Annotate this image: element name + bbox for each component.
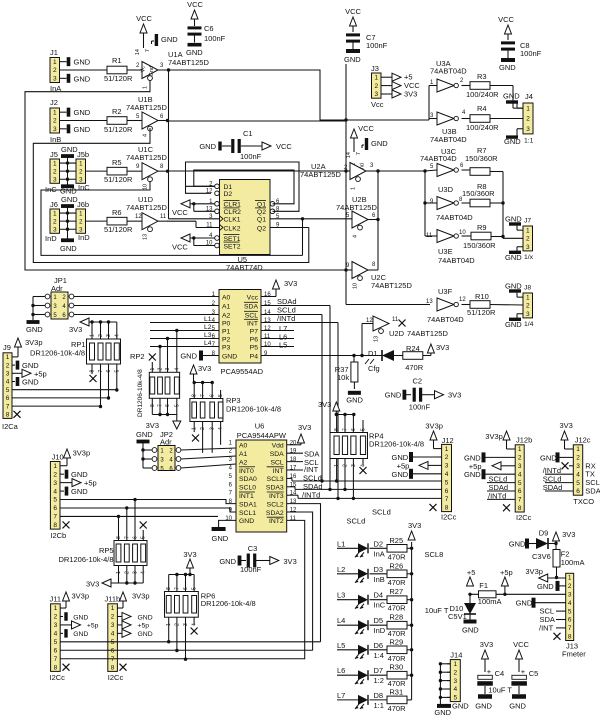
svg-text:6: 6 bbox=[6, 395, 10, 402]
svg-text:7: 7 bbox=[145, 49, 151, 52]
svg-text:3V3: 3V3 bbox=[146, 421, 159, 430]
svg-text:12: 12 bbox=[459, 297, 466, 303]
svg-text:VCC: VCC bbox=[172, 208, 188, 217]
svg-text:11: 11 bbox=[392, 317, 399, 323]
svg-text:3: 3 bbox=[568, 592, 572, 599]
svg-text:7: 7 bbox=[518, 497, 522, 504]
svg-text:13: 13 bbox=[264, 318, 271, 324]
svg-text:3: 3 bbox=[576, 463, 580, 470]
svg-text:J1: J1 bbox=[50, 48, 58, 57]
svg-text:1: 1 bbox=[53, 210, 57, 217]
svg-text:RP2: RP2 bbox=[130, 352, 145, 361]
svg-text:10uF T: 10uF T bbox=[425, 606, 449, 615]
svg-text:D8: D8 bbox=[374, 691, 384, 700]
svg-text:5: 5 bbox=[53, 497, 57, 504]
svg-text:3V3: 3V3 bbox=[198, 364, 211, 373]
svg-text:3: 3 bbox=[53, 176, 57, 183]
svg-text:7: 7 bbox=[111, 656, 115, 663]
svg-text:InA: InA bbox=[374, 549, 385, 558]
svg-text:13: 13 bbox=[374, 336, 380, 342]
svg-text:INT3: INT3 bbox=[269, 493, 284, 500]
svg-text:INT: INT bbox=[273, 468, 284, 475]
svg-text:4: 4 bbox=[6, 379, 10, 386]
svg-text:5: 5 bbox=[54, 639, 58, 646]
svg-text:3V3: 3V3 bbox=[404, 90, 417, 99]
svg-text:D7: D7 bbox=[374, 666, 384, 675]
svg-text:PCA9544APW: PCA9544APW bbox=[237, 431, 287, 440]
svg-text:6: 6 bbox=[568, 617, 572, 624]
svg-text:470R: 470R bbox=[388, 604, 407, 613]
svg-text:CLK2: CLK2 bbox=[224, 225, 241, 232]
svg-text:C6: C6 bbox=[204, 24, 214, 33]
svg-text:SCL2: SCL2 bbox=[267, 501, 284, 508]
svg-text:J14: J14 bbox=[450, 651, 462, 660]
svg-text:GND: GND bbox=[239, 518, 254, 525]
svg-text:3: 3 bbox=[526, 126, 530, 133]
svg-text:A0: A0 bbox=[222, 294, 231, 301]
svg-text:7: 7 bbox=[200, 394, 206, 397]
svg-text:D2: D2 bbox=[224, 191, 233, 198]
svg-text:1: 1 bbox=[53, 109, 57, 116]
svg-text:Vc: Vc bbox=[141, 66, 147, 73]
svg-text:D5: D5 bbox=[374, 616, 384, 625]
svg-text:J9: J9 bbox=[3, 343, 11, 352]
svg-text:2: 2 bbox=[98, 334, 104, 337]
svg-text:100nF: 100nF bbox=[204, 34, 226, 43]
svg-text:GND: GND bbox=[73, 631, 88, 638]
svg-text:SCL: SCL bbox=[270, 459, 283, 466]
svg-text:2: 2 bbox=[576, 455, 580, 462]
svg-text:3: 3 bbox=[53, 126, 57, 133]
svg-text:3V3: 3V3 bbox=[448, 391, 461, 400]
svg-text:SDA: SDA bbox=[270, 451, 284, 458]
svg-text:7: 7 bbox=[54, 656, 58, 663]
svg-text:1: 1 bbox=[53, 160, 57, 167]
svg-text:11: 11 bbox=[290, 516, 297, 522]
svg-text:D1: D1 bbox=[224, 184, 233, 191]
svg-text:InB: InB bbox=[374, 575, 385, 584]
svg-text:GND: GND bbox=[74, 58, 91, 67]
svg-text:P5: P5 bbox=[250, 344, 259, 351]
svg-text:/INT: /INT bbox=[304, 465, 319, 474]
svg-text:1: 1 bbox=[54, 605, 58, 612]
svg-text:Q2: Q2 bbox=[257, 209, 266, 216]
svg-text:4: 4 bbox=[453, 686, 457, 693]
svg-text:1: 1 bbox=[526, 227, 530, 234]
svg-text:8: 8 bbox=[568, 634, 572, 641]
svg-text:C3V6: C3V6 bbox=[532, 552, 551, 561]
svg-text:8: 8 bbox=[6, 412, 10, 419]
svg-text:INT: INT bbox=[247, 320, 258, 327]
svg-text:PCA9554AD: PCA9554AD bbox=[221, 367, 264, 376]
svg-text:VCC: VCC bbox=[187, 0, 203, 9]
svg-text:D3: D3 bbox=[374, 565, 384, 574]
svg-text:SDA: SDA bbox=[244, 303, 258, 310]
svg-text:D9: D9 bbox=[539, 529, 549, 538]
svg-text:DR1206-10k-4/8: DR1206-10k-4/8 bbox=[369, 440, 424, 449]
svg-text:2: 2 bbox=[53, 118, 57, 125]
svg-text:GND: GND bbox=[475, 702, 492, 711]
svg-text:7: 7 bbox=[568, 625, 572, 632]
svg-text:3: 3 bbox=[106, 334, 112, 337]
svg-text:100nF: 100nF bbox=[240, 565, 262, 574]
svg-text:3: 3 bbox=[6, 371, 10, 378]
svg-text:470R: 470R bbox=[405, 363, 424, 372]
svg-text:6: 6 bbox=[111, 647, 115, 654]
svg-text:51/120R: 51/120R bbox=[104, 125, 133, 134]
svg-text:GND: GND bbox=[22, 378, 39, 387]
svg-text:GND: GND bbox=[509, 540, 526, 549]
svg-text:DR1206-10k-4/8: DR1206-10k-4/8 bbox=[59, 555, 114, 564]
svg-text:2: 2 bbox=[111, 614, 115, 621]
svg-text:/INTd: /INTd bbox=[488, 491, 506, 500]
svg-text:VCC: VCC bbox=[276, 142, 292, 151]
svg-text:InD: InD bbox=[45, 234, 57, 243]
svg-text:14: 14 bbox=[264, 310, 271, 316]
svg-text:2: 2 bbox=[53, 67, 57, 74]
svg-text:J12: J12 bbox=[442, 436, 454, 445]
svg-text:GND: GND bbox=[464, 470, 481, 479]
svg-text:150/360R: 150/360R bbox=[462, 189, 495, 198]
svg-text:GND: GND bbox=[186, 48, 203, 57]
svg-text:3: 3 bbox=[53, 226, 57, 233]
svg-text:51/120R: 51/120R bbox=[104, 74, 133, 83]
svg-text:R27: R27 bbox=[389, 587, 403, 596]
svg-text:RP5: RP5 bbox=[99, 546, 114, 555]
svg-text:2: 2 bbox=[374, 83, 378, 90]
svg-text:SET2: SET2 bbox=[224, 243, 241, 250]
svg-text:3V3: 3V3 bbox=[436, 343, 449, 352]
svg-text:5: 5 bbox=[445, 479, 449, 486]
svg-text:J4: J4 bbox=[525, 92, 533, 101]
svg-text:13: 13 bbox=[143, 234, 149, 240]
svg-text:GND: GND bbox=[74, 108, 91, 117]
svg-text:5: 5 bbox=[111, 639, 115, 646]
svg-text:R29: R29 bbox=[389, 637, 403, 646]
svg-text:+5p: +5p bbox=[138, 623, 150, 630]
svg-text:GND: GND bbox=[71, 487, 88, 496]
svg-text:74ABT125D: 74ABT125D bbox=[126, 153, 167, 162]
svg-text:1: 1 bbox=[351, 187, 357, 190]
svg-text:3V3: 3V3 bbox=[298, 423, 311, 432]
svg-text:10: 10 bbox=[225, 516, 232, 522]
svg-text:A2: A2 bbox=[222, 312, 231, 319]
svg-text:8: 8 bbox=[111, 664, 115, 671]
svg-text:6: 6 bbox=[54, 647, 58, 654]
svg-text:2: 2 bbox=[518, 455, 522, 462]
svg-text:74ABT125D: 74ABT125D bbox=[126, 103, 167, 112]
svg-text:7: 7 bbox=[343, 428, 349, 431]
svg-text:R31: R31 bbox=[389, 687, 403, 696]
svg-text:L3: L3 bbox=[204, 332, 212, 339]
svg-text:C2: C2 bbox=[413, 377, 423, 386]
svg-text:2: 2 bbox=[526, 236, 530, 243]
svg-text:VCC: VCC bbox=[358, 124, 374, 133]
svg-text:10: 10 bbox=[353, 283, 359, 289]
svg-text:Q1: Q1 bbox=[257, 217, 266, 224]
svg-text:3: 3 bbox=[445, 463, 449, 470]
svg-text:3: 3 bbox=[53, 480, 57, 487]
svg-text:5: 5 bbox=[361, 428, 367, 431]
svg-text:51/120R: 51/120R bbox=[467, 308, 496, 317]
svg-text:10uF T: 10uF T bbox=[488, 686, 512, 695]
svg-text:100nF: 100nF bbox=[409, 403, 431, 412]
svg-text:F1: F1 bbox=[479, 581, 488, 590]
svg-text:J5b: J5b bbox=[77, 150, 89, 159]
svg-text:100mA: 100mA bbox=[561, 558, 585, 567]
svg-text:GND: GND bbox=[346, 396, 363, 405]
svg-text:3V3p: 3V3p bbox=[425, 422, 443, 431]
svg-text:3V3: 3V3 bbox=[318, 400, 331, 409]
svg-text:17: 17 bbox=[290, 466, 297, 472]
svg-text:6: 6 bbox=[133, 536, 139, 539]
svg-text:TXCO: TXCO bbox=[573, 497, 594, 506]
svg-text:R5: R5 bbox=[112, 158, 122, 167]
svg-text:SCLd: SCLd bbox=[347, 517, 366, 526]
svg-text:L7: L7 bbox=[337, 691, 345, 700]
svg-text:GND: GND bbox=[452, 702, 469, 711]
svg-text:74ABT125D: 74ABT125D bbox=[407, 329, 448, 338]
svg-text:8: 8 bbox=[334, 428, 340, 431]
svg-text:+: + bbox=[521, 667, 526, 676]
svg-text:3: 3 bbox=[453, 678, 457, 685]
svg-text:3V3p: 3V3p bbox=[485, 432, 503, 441]
svg-text:100nF: 100nF bbox=[240, 152, 262, 161]
svg-text:GND: GND bbox=[505, 282, 522, 291]
svg-text:+5: +5 bbox=[467, 568, 476, 577]
svg-text:1:2: 1:2 bbox=[374, 676, 384, 685]
svg-text:GND: GND bbox=[26, 325, 43, 334]
svg-text:3: 3 bbox=[54, 622, 58, 629]
svg-text:3V3: 3V3 bbox=[562, 530, 575, 539]
svg-text:3: 3 bbox=[53, 76, 57, 83]
svg-text:15: 15 bbox=[290, 482, 297, 488]
svg-text:2: 2 bbox=[568, 583, 572, 590]
svg-text:VCC: VCC bbox=[172, 243, 188, 252]
svg-text:DR1206-10k-4/8: DR1206-10k-4/8 bbox=[30, 349, 85, 358]
svg-text:L6: L6 bbox=[337, 666, 345, 675]
svg-text:1: 1 bbox=[526, 294, 530, 301]
svg-text:4: 4 bbox=[174, 368, 180, 371]
svg-text:C3: C3 bbox=[248, 544, 258, 553]
svg-text:7: 7 bbox=[124, 536, 130, 539]
svg-text:P0: P0 bbox=[222, 320, 231, 327]
svg-text:7: 7 bbox=[6, 403, 10, 410]
svg-text:2: 2 bbox=[53, 168, 57, 175]
svg-text:InC: InC bbox=[374, 601, 386, 610]
svg-text:A2: A2 bbox=[239, 459, 248, 466]
svg-text:I2Cb: I2Cb bbox=[50, 531, 66, 540]
svg-text:6: 6 bbox=[576, 488, 580, 495]
svg-text:GND: GND bbox=[74, 125, 91, 134]
svg-text:1: 1 bbox=[143, 86, 149, 89]
svg-text:74ABT04D: 74ABT04D bbox=[420, 154, 457, 163]
svg-text:3: 3 bbox=[374, 91, 378, 98]
svg-text:19: 19 bbox=[290, 449, 297, 455]
svg-text:GND: GND bbox=[505, 253, 522, 262]
svg-text:J3: J3 bbox=[371, 64, 379, 73]
svg-text:6: 6 bbox=[53, 505, 57, 512]
svg-text:R3: R3 bbox=[477, 72, 487, 81]
svg-text:SCL0: SCL0 bbox=[239, 485, 256, 492]
svg-text:Vcc: Vcc bbox=[247, 294, 259, 301]
svg-text:3V3: 3V3 bbox=[283, 557, 296, 566]
svg-text:SDA: SDA bbox=[585, 487, 600, 496]
svg-text:VCC: VCC bbox=[513, 640, 529, 649]
svg-text:1/4: 1/4 bbox=[524, 321, 534, 328]
svg-text:R6: R6 bbox=[112, 208, 122, 217]
svg-text:L1: L1 bbox=[337, 539, 345, 548]
svg-text:J5: J5 bbox=[50, 150, 58, 159]
svg-text:20: 20 bbox=[290, 440, 297, 446]
svg-text:6: 6 bbox=[210, 394, 216, 397]
svg-text:SCL: SCL bbox=[245, 312, 258, 319]
svg-text:J11: J11 bbox=[50, 595, 62, 604]
svg-text:2: 2 bbox=[54, 614, 58, 621]
svg-text:18: 18 bbox=[290, 457, 297, 463]
svg-text:1: 1 bbox=[111, 605, 115, 612]
svg-text:16: 16 bbox=[264, 292, 271, 298]
svg-text:2: 2 bbox=[158, 368, 164, 371]
svg-text:U3F: U3F bbox=[438, 287, 453, 296]
svg-text:J6: J6 bbox=[50, 200, 58, 209]
svg-text:150/360R: 150/360R bbox=[465, 154, 498, 163]
svg-text:U2D: U2D bbox=[389, 329, 405, 338]
svg-text:12: 12 bbox=[135, 214, 142, 220]
svg-text:4: 4 bbox=[143, 134, 149, 137]
svg-text:P3: P3 bbox=[222, 344, 231, 351]
svg-text:GND: GND bbox=[540, 453, 557, 462]
svg-text:4: 4 bbox=[114, 334, 120, 337]
svg-text:2: 2 bbox=[526, 116, 530, 123]
svg-text:/INTd: /INTd bbox=[277, 314, 295, 323]
svg-text:L2: L2 bbox=[337, 565, 345, 574]
svg-text:I2Cc: I2Cc bbox=[50, 673, 66, 682]
svg-text:3V3: 3V3 bbox=[69, 325, 82, 334]
svg-text:VCC: VCC bbox=[136, 14, 152, 23]
svg-text:L1: L1 bbox=[204, 316, 212, 323]
svg-text:74ABT125D: 74ABT125D bbox=[168, 58, 209, 67]
svg-text:D1: D1 bbox=[368, 349, 378, 358]
svg-text:1:1: 1:1 bbox=[524, 138, 534, 145]
svg-text:6: 6 bbox=[183, 587, 189, 590]
svg-text:10: 10 bbox=[264, 342, 271, 348]
svg-text:3V3: 3V3 bbox=[480, 640, 493, 649]
svg-text:P7: P7 bbox=[250, 328, 259, 335]
svg-text:5: 5 bbox=[218, 394, 224, 397]
svg-text:2: 2 bbox=[53, 218, 57, 225]
svg-text:5: 5 bbox=[141, 536, 147, 539]
svg-text:12: 12 bbox=[290, 508, 297, 514]
svg-text:VCC: VCC bbox=[345, 7, 361, 16]
svg-text:+5p: +5p bbox=[87, 623, 99, 630]
svg-text:L5: L5 bbox=[279, 341, 287, 350]
svg-text:3V3p: 3V3p bbox=[25, 338, 43, 347]
svg-text:2: 2 bbox=[445, 454, 449, 461]
svg-text:8: 8 bbox=[518, 505, 522, 512]
svg-text:SCLd: SCLd bbox=[372, 508, 391, 517]
svg-text:GND: GND bbox=[199, 142, 216, 151]
svg-text:SCL8: SCL8 bbox=[425, 550, 444, 559]
svg-text:INT1: INT1 bbox=[239, 493, 254, 500]
svg-text:INT2: INT2 bbox=[269, 518, 284, 525]
svg-text:+: + bbox=[487, 667, 492, 676]
svg-text:74ABT125D: 74ABT125D bbox=[126, 203, 167, 212]
svg-text:14: 14 bbox=[346, 152, 352, 158]
svg-text:VCC: VCC bbox=[498, 15, 514, 24]
svg-text:3: 3 bbox=[165, 368, 171, 371]
svg-text:GND: GND bbox=[385, 391, 402, 400]
svg-text:1: 1 bbox=[53, 463, 57, 470]
svg-text:GND: GND bbox=[74, 74, 91, 83]
svg-text:+5p: +5p bbox=[500, 568, 513, 577]
svg-text:1: 1 bbox=[374, 74, 378, 81]
svg-text:GND: GND bbox=[136, 430, 153, 439]
svg-text:I2Ca: I2Ca bbox=[2, 422, 19, 431]
svg-text:15: 15 bbox=[264, 301, 271, 307]
svg-text:GND: GND bbox=[462, 626, 479, 635]
svg-text:100/240R: 100/240R bbox=[466, 123, 499, 132]
svg-text:L4: L4 bbox=[204, 340, 212, 347]
svg-text:DR1206-10k-4/8: DR1206-10k-4/8 bbox=[137, 369, 144, 417]
svg-text:InD: InD bbox=[374, 626, 386, 635]
svg-text:3V3: 3V3 bbox=[86, 580, 99, 589]
svg-text:Vcc: Vcc bbox=[371, 100, 384, 109]
svg-text:6: 6 bbox=[445, 488, 449, 495]
svg-text:Cfg: Cfg bbox=[368, 364, 380, 373]
svg-text:I2Cc: I2Cc bbox=[108, 673, 124, 682]
svg-text:GND: GND bbox=[219, 557, 236, 566]
svg-text:GND: GND bbox=[180, 352, 197, 361]
svg-text:GND: GND bbox=[212, 534, 229, 543]
svg-text:1: 1 bbox=[568, 575, 572, 582]
svg-text:U3D: U3D bbox=[438, 185, 454, 194]
svg-text:R10: R10 bbox=[475, 292, 489, 301]
svg-text:GND: GND bbox=[499, 63, 516, 72]
svg-text:12: 12 bbox=[264, 326, 271, 332]
svg-text:74ABT125D: 74ABT125D bbox=[336, 203, 377, 212]
svg-text:11: 11 bbox=[264, 334, 271, 340]
svg-text:GND: GND bbox=[73, 614, 88, 621]
svg-text:3: 3 bbox=[526, 244, 530, 251]
svg-text:100nF: 100nF bbox=[366, 41, 388, 50]
svg-text:11: 11 bbox=[160, 214, 167, 220]
svg-text:GND: GND bbox=[371, 139, 388, 148]
svg-text:8: 8 bbox=[53, 522, 57, 529]
svg-text:74ABT125D: 74ABT125D bbox=[371, 281, 412, 290]
svg-text:100/240R: 100/240R bbox=[466, 90, 499, 99]
svg-text:8: 8 bbox=[192, 394, 198, 397]
svg-text:SCL1: SCL1 bbox=[239, 510, 256, 517]
svg-text:8: 8 bbox=[116, 536, 122, 539]
svg-text:GND: GND bbox=[509, 702, 526, 711]
svg-text:4: 4 bbox=[54, 631, 58, 638]
svg-text:D2: D2 bbox=[374, 539, 384, 548]
svg-text:D6: D6 bbox=[374, 641, 384, 650]
svg-text:6: 6 bbox=[351, 428, 357, 431]
svg-text:I2Cc: I2Cc bbox=[516, 513, 532, 522]
svg-text:GND: GND bbox=[61, 145, 78, 154]
svg-text:J2: J2 bbox=[50, 98, 58, 107]
svg-text:SDA2: SDA2 bbox=[266, 510, 284, 517]
svg-text:1/x: 1/x bbox=[524, 254, 534, 261]
svg-text:I2Cc: I2Cc bbox=[441, 513, 457, 522]
svg-text:4: 4 bbox=[576, 471, 580, 478]
svg-text:8: 8 bbox=[445, 505, 449, 512]
svg-text:3: 3 bbox=[526, 311, 530, 318]
svg-text:3: 3 bbox=[111, 622, 115, 629]
svg-text:150/360R: 150/360R bbox=[463, 241, 496, 250]
